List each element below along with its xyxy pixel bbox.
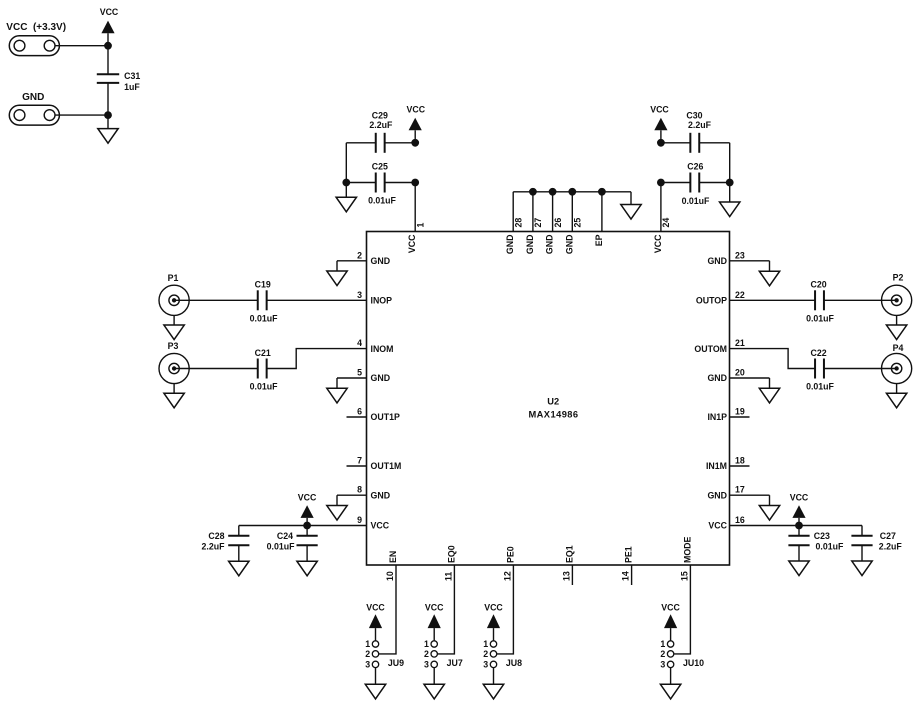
wire P3 to C21 — [174, 368, 258, 370]
pin 7 (OUT1M) — [347, 456, 402, 472]
junction bus pin 27 — [529, 188, 537, 196]
svg-text:JU9: JU9 — [388, 658, 404, 668]
pin 27 (GND) — [525, 218, 543, 254]
capacitor C20 — [806, 280, 834, 324]
svg-text:3: 3 — [365, 660, 370, 670]
IC U2 MAX14986 — [367, 232, 730, 566]
pin 14 (PE1) — [621, 546, 634, 585]
pin 20 (GND) — [707, 368, 769, 384]
pin 11 (EQ0) — [443, 545, 456, 581]
svg-text:IN1P: IN1P — [707, 412, 727, 422]
pin 23 (GND) — [707, 250, 769, 266]
svg-text:MODE: MODE — [682, 536, 692, 563]
svg-text:PE0: PE0 — [505, 546, 515, 563]
net label GND — [22, 92, 44, 103]
svg-text:20: 20 — [735, 368, 745, 378]
junction pin9 rail / C24 — [303, 522, 311, 530]
junction pin16 rail / C23 — [795, 522, 803, 530]
svg-text:U2: U2 — [547, 396, 559, 406]
svg-text:GND: GND — [371, 256, 391, 266]
ground — [164, 384, 184, 408]
pin 24 (VCC) — [653, 218, 671, 253]
capacitor C31 — [97, 71, 141, 92]
ground — [886, 315, 906, 339]
svg-text:INOP: INOP — [371, 296, 393, 306]
ground — [424, 684, 444, 699]
ground — [759, 378, 779, 403]
pin 5 (GND) — [337, 368, 390, 384]
svg-text:EP: EP — [594, 234, 604, 246]
wire JU8 pin3 down — [493, 668, 495, 685]
ground — [327, 495, 347, 520]
pin 2 (GND) — [337, 250, 390, 266]
svg-text:13: 13 — [561, 571, 571, 581]
svg-text:JU10: JU10 — [683, 658, 704, 668]
svg-text:23: 23 — [735, 250, 745, 260]
svg-text:GND: GND — [545, 235, 555, 255]
svg-text:VCC: VCC — [708, 521, 727, 531]
svg-text:VCC: VCC — [661, 602, 680, 612]
capacitor C27 — [851, 526, 902, 562]
wire pin 26 to bus — [552, 192, 554, 232]
wire GND pad to node — [55, 114, 108, 116]
capacitor C22 — [806, 348, 834, 392]
svg-text:3: 3 — [483, 660, 488, 670]
wire JU7 pin3 down — [433, 668, 435, 685]
wire JU7 pin2 to IC — [437, 565, 454, 654]
svg-text:VCC: VCC — [653, 234, 663, 253]
svg-text:GND: GND — [371, 490, 391, 500]
ground — [660, 684, 680, 699]
connector P1 — [159, 273, 189, 316]
svg-text:10: 10 — [385, 571, 395, 581]
pin 1 (VCC) — [407, 223, 425, 254]
wire JU10 pin2 to IC — [674, 565, 691, 654]
ground — [852, 561, 872, 576]
pin 9 (VCC) — [357, 515, 390, 531]
svg-text:VCC: VCC — [407, 105, 426, 115]
wire JU9 pin3 down — [375, 668, 377, 685]
svg-text:0.01uF: 0.01uF — [267, 542, 295, 552]
wire C20 to P2 — [824, 299, 897, 301]
junction GND node — [104, 111, 112, 119]
svg-text:17: 17 — [735, 485, 745, 495]
svg-text:26: 26 — [553, 218, 563, 228]
pin (EP) — [594, 234, 604, 246]
svg-text:EQ0: EQ0 — [446, 545, 456, 563]
pin 8 (GND) — [337, 485, 390, 501]
junction pin1 rail / C25 — [411, 179, 419, 187]
jumper JU10 — [660, 639, 704, 669]
svg-text:C22: C22 — [811, 348, 827, 358]
svg-text:INOM: INOM — [371, 344, 394, 354]
svg-text:5: 5 — [357, 368, 362, 378]
pin 18 (IN1M) — [706, 456, 750, 472]
svg-text:2: 2 — [660, 649, 665, 659]
junction VCC node — [104, 42, 112, 50]
svg-text:JU8: JU8 — [506, 658, 522, 668]
svg-text:C30: C30 — [686, 110, 702, 120]
svg-text:9: 9 — [357, 515, 362, 525]
svg-text:C21: C21 — [255, 348, 271, 358]
svg-text:2.2uF: 2.2uF — [202, 542, 226, 552]
connector P4 — [882, 343, 912, 384]
jumper JU8 — [483, 639, 522, 669]
ground — [365, 684, 385, 699]
wire P1 to C19 — [174, 299, 258, 301]
ground — [483, 684, 503, 699]
svg-text:P1: P1 — [168, 273, 179, 283]
svg-text:C31: C31 — [124, 71, 140, 81]
pin 6 (OUT1P) — [347, 407, 400, 423]
svg-text:VCC: VCC — [425, 602, 444, 612]
svg-text:VCC: VCC — [298, 492, 317, 502]
svg-text:0.01uF: 0.01uF — [806, 382, 834, 392]
capacitor C30 — [661, 110, 730, 153]
ground — [297, 561, 317, 576]
pin 12 (PE0) — [502, 546, 515, 581]
wire C26 right leg down — [729, 183, 731, 203]
svg-text:VCC: VCC — [650, 105, 669, 115]
wire VCC pad to node — [55, 45, 108, 47]
wire C31 to GND node — [107, 83, 109, 115]
svg-text:12: 12 — [502, 571, 512, 581]
svg-text:JU7: JU7 — [447, 658, 463, 668]
ground — [789, 561, 809, 576]
svg-text:28: 28 — [513, 218, 523, 228]
wire bus to ground — [630, 192, 632, 205]
ground — [98, 129, 118, 144]
svg-text:11: 11 — [443, 572, 453, 581]
svg-text:VCC (+3.3V): VCC (+3.3V) — [6, 22, 66, 33]
svg-text:1: 1 — [365, 639, 370, 649]
wire pin 22 to C20 — [730, 299, 816, 301]
junction pin24 rail / C30 — [657, 139, 665, 147]
svg-text:GND: GND — [371, 373, 391, 383]
svg-text:C28: C28 — [208, 531, 224, 541]
pin 21 (OUTOM) — [694, 338, 744, 354]
ground — [886, 384, 906, 408]
capacitor C19 — [250, 280, 278, 324]
svg-text:1: 1 — [483, 639, 488, 649]
ground — [229, 561, 249, 576]
capacitor C28 — [202, 526, 250, 562]
svg-text:19: 19 — [735, 407, 745, 417]
wire pin 27 to bus — [532, 192, 534, 232]
svg-text:2: 2 — [357, 250, 362, 260]
svg-text:GND: GND — [564, 235, 574, 255]
ground — [621, 205, 641, 220]
junction pin24 rail / C26 — [657, 179, 665, 187]
pin 15 (MODE) — [679, 536, 692, 581]
svg-text:GND: GND — [505, 235, 515, 255]
svg-text:22: 22 — [735, 290, 745, 300]
connector GND pad (pill) — [9, 105, 59, 125]
wire VCC rail to pin 24 — [660, 183, 662, 232]
svg-text:1: 1 — [424, 639, 429, 649]
svg-text:VCC: VCC — [366, 602, 385, 612]
wire C21 to pin 4 — [267, 349, 367, 369]
capacitor C21 — [250, 348, 278, 392]
svg-text:3: 3 — [424, 660, 429, 670]
svg-text:2: 2 — [424, 649, 429, 659]
svg-text:C27: C27 — [880, 531, 896, 541]
svg-text:OUTOP: OUTOP — [696, 296, 727, 306]
capacitor C24 — [267, 526, 318, 562]
wire VCC rail to pin 1 — [414, 183, 416, 232]
capacitor C26 — [661, 162, 730, 207]
svg-text:VCC: VCC — [484, 602, 503, 612]
connector P2 — [882, 273, 912, 316]
svg-text:PE1: PE1 — [624, 546, 634, 563]
wire C30 right leg down — [729, 143, 731, 183]
power symbol VCC (JU7) — [425, 602, 444, 640]
net label VCC (+3.3V) — [6, 22, 66, 33]
svg-text:27: 27 — [533, 218, 543, 228]
svg-text:2.2uF: 2.2uF — [879, 542, 903, 552]
svg-text:21: 21 — [735, 338, 745, 348]
svg-text:0.01uF: 0.01uF — [682, 196, 710, 206]
svg-text:1uF: 1uF — [124, 82, 140, 92]
svg-text:EN: EN — [388, 551, 398, 563]
power symbol VCC — [100, 7, 119, 46]
wire C25 left leg down — [345, 183, 347, 198]
junction C25 left — [342, 179, 350, 187]
svg-text:2.2uF: 2.2uF — [369, 120, 393, 130]
pin 28 (GND) — [505, 218, 523, 254]
pin 17 (GND) — [707, 485, 769, 501]
ground — [327, 261, 347, 286]
wire GND bus — [513, 191, 631, 193]
pin 22 (OUTOP) — [696, 290, 745, 306]
svg-text:1: 1 — [415, 223, 425, 228]
pin 19 (IN1P) — [707, 407, 749, 423]
svg-text:14: 14 — [621, 571, 631, 581]
jumper JU7 — [424, 639, 463, 669]
power symbol VCC (pin 16 rail) — [790, 492, 809, 525]
pin 25 (GND) — [564, 218, 582, 254]
svg-text:0.01uF: 0.01uF — [806, 313, 834, 323]
svg-text:2: 2 — [483, 649, 488, 659]
svg-text:VCC: VCC — [100, 7, 119, 17]
svg-text:GND: GND — [707, 490, 727, 500]
power symbol VCC (JU9) — [366, 602, 385, 640]
svg-text:GND: GND — [525, 235, 535, 255]
capacitor C29 — [346, 110, 415, 153]
connector VCC pad (pill) — [9, 36, 59, 56]
power symbol VCC (pin 1 rail) — [407, 105, 426, 143]
svg-text:1: 1 — [660, 639, 665, 649]
pin 3 (INOP) — [357, 290, 392, 306]
power symbol VCC (JU8) — [484, 602, 503, 640]
svg-text:OUT1M: OUT1M — [371, 461, 402, 471]
wire JU8 pin2 to IC — [497, 565, 514, 654]
svg-text:8: 8 — [357, 485, 362, 495]
svg-text:18: 18 — [735, 456, 745, 466]
svg-text:P4: P4 — [893, 343, 904, 353]
svg-text:OUTOM: OUTOM — [694, 344, 727, 354]
wire JU10 pin3 down — [670, 668, 672, 685]
svg-text:4: 4 — [357, 338, 362, 348]
wire C19 to pin 3 — [267, 299, 367, 301]
svg-text:16: 16 — [735, 515, 745, 525]
svg-text:25: 25 — [573, 218, 583, 228]
wire GND node down — [107, 115, 109, 129]
junction bus EP — [598, 188, 606, 196]
svg-text:VCC: VCC — [371, 521, 390, 531]
pin 13 (EQ1) — [561, 545, 574, 585]
svg-text:3: 3 — [660, 660, 665, 670]
svg-text:VCC: VCC — [790, 492, 809, 502]
svg-text:VCC: VCC — [407, 234, 417, 253]
ground — [164, 315, 184, 339]
ground — [759, 495, 779, 520]
pin 26 (GND) — [545, 218, 563, 254]
wire pin 21 to C22 — [730, 349, 816, 369]
pin 10 (EN) — [385, 551, 398, 581]
svg-text:IN1M: IN1M — [706, 461, 727, 471]
junction C26 right — [726, 179, 734, 187]
svg-text:GND: GND — [22, 92, 44, 103]
ground — [336, 197, 356, 212]
junction bus pin 25 — [568, 188, 576, 196]
svg-text:GND: GND — [707, 256, 727, 266]
svg-text:0.01uF: 0.01uF — [816, 542, 844, 552]
svg-text:7: 7 — [357, 456, 362, 466]
pin 4 (INOM) — [357, 338, 393, 354]
svg-text:0.01uF: 0.01uF — [250, 313, 278, 323]
jumper JU9 — [365, 639, 404, 669]
capacitor C23 — [788, 526, 844, 562]
svg-text:EQ1: EQ1 — [564, 545, 574, 563]
svg-text:GND: GND — [707, 373, 727, 383]
svg-text:6: 6 — [357, 407, 362, 417]
junction bus pin 26 — [549, 188, 557, 196]
svg-text:C23: C23 — [814, 531, 830, 541]
svg-text:C19: C19 — [255, 280, 271, 290]
wire C22 to P4 — [824, 368, 897, 370]
svg-text:15: 15 — [679, 571, 689, 581]
svg-text:C25: C25 — [372, 162, 388, 172]
svg-text:2.2uF: 2.2uF — [688, 120, 712, 130]
capacitor C25 — [346, 162, 415, 206]
svg-text:0.01uF: 0.01uF — [368, 196, 396, 206]
svg-text:C29: C29 — [372, 110, 388, 120]
svg-text:OUT1P: OUT1P — [371, 412, 400, 422]
svg-text:C26: C26 — [687, 162, 703, 172]
svg-text:P3: P3 — [168, 341, 179, 351]
ground — [720, 202, 740, 217]
svg-text:C24: C24 — [277, 531, 293, 541]
pin 16 (VCC) — [708, 515, 744, 531]
wire C29 left leg down — [345, 143, 347, 183]
svg-text:24: 24 — [661, 218, 671, 228]
wire EP to bus — [601, 192, 603, 232]
power symbol VCC (pin 24 rail) — [650, 105, 669, 143]
svg-text:0.01uF: 0.01uF — [250, 382, 278, 392]
wire pin 28 to bus — [512, 192, 514, 232]
ground — [327, 378, 347, 403]
power symbol VCC (pin 9 rail) — [298, 492, 317, 525]
wire VCC node to C31 — [107, 46, 109, 74]
svg-text:C20: C20 — [811, 280, 827, 290]
svg-text:2: 2 — [365, 649, 370, 659]
wire pin 25 to bus — [571, 192, 573, 232]
wire pin 9 rail — [239, 525, 367, 527]
ground — [759, 261, 779, 286]
wire JU9 pin2 to IC — [379, 565, 396, 654]
junction pin1 rail / C29 — [411, 139, 419, 147]
connector P3 — [159, 341, 189, 384]
wire pin 16 rail — [730, 525, 863, 527]
power symbol VCC (JU10) — [661, 602, 680, 640]
svg-text:P2: P2 — [893, 273, 904, 283]
svg-text:3: 3 — [357, 290, 362, 300]
svg-text:MAX14986: MAX14986 — [528, 409, 578, 419]
